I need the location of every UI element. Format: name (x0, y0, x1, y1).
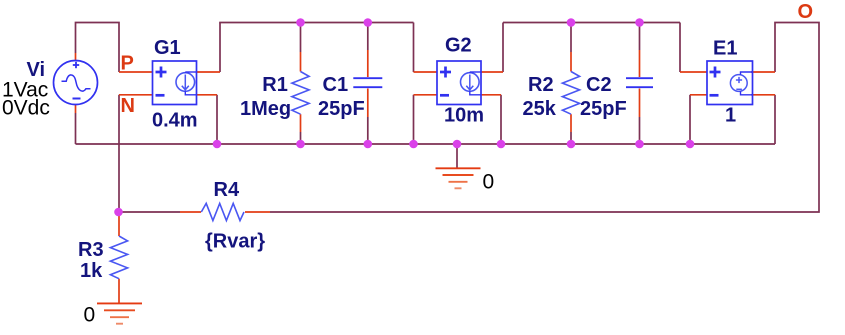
svg-text:0: 0 (84, 304, 96, 327)
wire G1 out- down to ground rail (216, 95, 218, 144)
junction dot ground rail at G2 in- (409, 140, 418, 149)
label Vi value 1Vac (2, 79, 48, 102)
pin G1 out- (197, 94, 218, 96)
wire stage-1 rail down to G2 in+ (413, 23, 415, 73)
wire stage-1 top rail (219, 22, 413, 24)
ground symbol at G2 (0) (436, 168, 481, 188)
pin R4 right (245, 211, 270, 213)
wire C2 column maroon segments (639, 23, 641, 145)
svg-text:25pF: 25pF (580, 98, 627, 120)
wire Vi plus to node P loop (76, 23, 120, 73)
wire ground tap under G2 (456, 144, 458, 168)
svg-text:0Vdc: 0Vdc (2, 97, 50, 120)
wire E1 out+ to node O and down to R4 (270, 23, 819, 213)
wire ground rail (bottom) (76, 143, 776, 145)
pin G1 in- (node N stub) (119, 94, 153, 96)
svg-text:1k: 1k (80, 260, 103, 282)
pin C2 bottom (639, 89, 641, 118)
VCCS G1 box (153, 61, 197, 105)
wire G2 out- down to ground rail (500, 95, 502, 144)
junction dot ground rail at R1 (296, 140, 305, 149)
wire G2 in- down to ground rail (413, 95, 415, 144)
label R1 refdes (262, 74, 288, 96)
label G1 value 0.4m (152, 110, 198, 132)
label E1 value 1 (725, 105, 736, 127)
pin E1 in+ (680, 71, 707, 73)
svg-text:10m: 10m (444, 105, 484, 127)
svg-text:R3: R3 (78, 239, 104, 261)
wire Vi minus down to ground rail (75, 113, 77, 144)
label ground 0 at G2 (483, 171, 495, 194)
resistor R2 (562, 72, 579, 115)
VCCS G2 box (437, 61, 481, 105)
label E1 refdes (713, 38, 737, 60)
pin G2 in- (414, 94, 438, 96)
pin R4 left (180, 211, 201, 213)
pin R1 top (300, 52, 302, 72)
pin R3 bottom to ground (118, 279, 120, 303)
label R1 value 1Meg (240, 98, 291, 120)
junction dot ground rail at E1 in- (686, 140, 695, 149)
label G1 refdes (154, 37, 181, 59)
label G2 refdes (445, 35, 472, 57)
label G2 value 10m (444, 105, 484, 127)
junction dot ground rail at R2 (567, 140, 576, 149)
VCVS E1 box (707, 61, 753, 105)
wire node N vertical from G1 to R3/R4 junction (118, 95, 120, 212)
pin E1 out+ (751, 71, 775, 73)
pin G1 out+ (197, 71, 221, 73)
pin R2 bottom (570, 114, 572, 132)
svg-text:E1: E1 (713, 38, 737, 60)
junction dot ground rail at C1 (364, 140, 373, 149)
label C1 refdes (323, 74, 349, 96)
node label O (798, 1, 814, 23)
resistor R1 (292, 72, 309, 115)
wire C1 column maroon segments (367, 23, 369, 145)
wire E1 in- down to ground rail (689, 95, 691, 144)
label R4 refdes (214, 179, 240, 201)
resistor R3 (110, 236, 127, 279)
svg-text:0.4m: 0.4m (152, 110, 198, 132)
ground symbol at R3 (0) (97, 303, 142, 323)
svg-text:R4: R4 (214, 179, 240, 201)
junction dot ground rail at C2 (635, 140, 644, 149)
junction dot ground rail at ground tap (453, 140, 462, 149)
voltage source Vi (54, 61, 98, 105)
wire E1 out- down to ground rail (774, 95, 776, 144)
svg-text:O: O (798, 1, 814, 23)
wire G2 out+ up to stage-2 rail (502, 23, 504, 73)
svg-text:G1: G1 (154, 37, 181, 59)
capacitor C1 (353, 78, 382, 87)
svg-text:C1: C1 (323, 74, 349, 96)
svg-text:25pF: 25pF (318, 98, 365, 120)
wire G1 out+ up to stage-1 rail (219, 23, 221, 73)
label C2 refdes (586, 74, 612, 96)
pin R3 top (118, 214, 120, 236)
svg-text:P: P (121, 53, 134, 75)
pin G2 out+ (481, 71, 503, 73)
capacitor C2 (626, 78, 653, 87)
pin E1 out- (751, 94, 775, 96)
pin Vi bottom (75, 105, 77, 114)
pin R1 bottom (300, 114, 302, 132)
label R4 value {Rvar} (205, 231, 265, 253)
svg-text:{Rvar}: {Rvar} (205, 231, 265, 253)
resistor R4 (201, 203, 244, 220)
svg-text:0: 0 (483, 171, 495, 194)
node label N (121, 95, 135, 117)
wire R4 left to R3/R4 junction (119, 211, 181, 213)
junction dot top rail at C2 (635, 18, 644, 27)
pin C1 top (367, 50, 369, 77)
wire R1 column maroon segments (300, 23, 302, 145)
svg-text:C2: C2 (586, 74, 612, 96)
pin E1 in- (690, 94, 707, 96)
pin C2 top (639, 50, 641, 77)
junction dot node N at R3/R4 (114, 208, 123, 217)
wire R2 column maroon segments (570, 23, 572, 145)
junction dot top rail at R1 (296, 18, 305, 27)
svg-text:N: N (121, 95, 135, 117)
junction dot ground rail at G2 out- (497, 140, 506, 149)
wire stage-2 rail down to E1 in+ (679, 23, 681, 73)
label Vi refdes (27, 59, 46, 81)
wire stage-2 top rail (503, 22, 680, 24)
junction dot ground rail at G1 out- (213, 140, 222, 149)
pin C1 bottom (367, 89, 369, 118)
svg-text:1: 1 (725, 105, 736, 127)
junction dot top rail at R2 (567, 18, 576, 27)
pin G1 in+ (node P stub) (119, 71, 153, 73)
node label P (121, 53, 134, 75)
svg-text:G2: G2 (445, 35, 472, 57)
label Vi value 0Vdc (2, 97, 50, 120)
pin G2 out- (481, 94, 501, 96)
label R2 refdes (528, 74, 554, 96)
svg-text:1Meg: 1Meg (240, 98, 291, 120)
label R3 refdes (78, 239, 104, 261)
label R2 value 25k (523, 98, 557, 120)
svg-text:R1: R1 (262, 74, 288, 96)
svg-text:R2: R2 (528, 74, 554, 96)
label C2 value 25pF (580, 98, 627, 120)
pin R2 top (570, 52, 572, 72)
svg-text:25k: 25k (523, 98, 557, 120)
pin Vi top (75, 53, 77, 61)
label R3 value 1k (80, 260, 103, 282)
label ground 0 at R3 (84, 304, 96, 327)
label C1 value 25pF (318, 98, 365, 120)
junction dot top rail at C1 (364, 18, 373, 27)
pin G2 in+ (414, 71, 438, 73)
